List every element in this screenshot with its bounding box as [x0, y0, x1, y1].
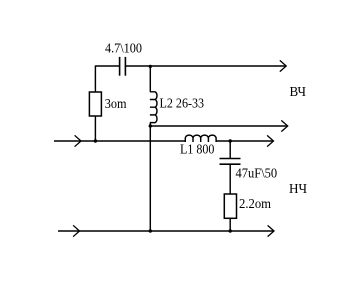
inductor L1 coil — [185, 135, 216, 142]
capacitor C1 plates — [120, 57, 126, 76]
arrowhead bottom input — [73, 225, 79, 236]
capacitor C2 plates — [220, 159, 241, 165]
arrowhead bottom output — [268, 225, 274, 236]
svg-text:L2 26-33: L2 26-33 — [160, 97, 205, 112]
node junction dot (R2 / bottom wire) — [229, 229, 232, 232]
arrowhead middle output — [267, 135, 273, 146]
wire top-left from node A to C1 — [95, 65, 119, 67]
svg-text:3om: 3om — [105, 97, 127, 112]
node junction dot (main vertical / bottom wire) — [149, 229, 152, 232]
svg-text:2.2om: 2.2om — [239, 197, 271, 212]
inductor L2 coil — [150, 92, 157, 123]
arrowhead ВЧ+ output — [280, 60, 286, 71]
resistor R2 body — [224, 194, 236, 218]
wire R1 bottom to middle wire — [94, 116, 96, 141]
wire middle output segment (L1 to НЧ tap) — [216, 140, 273, 142]
wire middle input segment — [54, 140, 185, 142]
arrowhead ВЧ- output — [281, 120, 287, 131]
svg-text:ВЧ: ВЧ — [290, 85, 307, 100]
svg-text:L1 800: L1 800 — [180, 143, 214, 158]
wire top segment of main vertical (node A to L2) — [149, 65, 151, 91]
wire left branch upper (top wire to R1) — [94, 65, 96, 92]
node junction dot (L2 bottom / ВЧ- wire) — [149, 124, 152, 127]
node junction dot (C2 / middle wire) — [229, 139, 232, 142]
wire bottom input/output — [58, 230, 273, 232]
node junction dot (R1 / middle wire) — [94, 139, 97, 142]
wire R2 bottom to bottom wire — [229, 218, 231, 231]
wire ВЧ- output (y=126) — [150, 125, 287, 127]
wire C2 top stub — [229, 141, 231, 159]
resistor R1 body — [89, 92, 101, 116]
wire C1 to ВЧ+ output — [126, 65, 286, 67]
arrowhead middle input — [75, 135, 81, 146]
node A junction dot (top wire / L2 branch) — [149, 65, 152, 68]
wire lower segment of main vertical (L2 to bottom wire) — [149, 123, 151, 231]
svg-text:47uF\50: 47uF\50 — [236, 167, 278, 182]
svg-text:4.7\100: 4.7\100 — [105, 42, 142, 57]
svg-text:НЧ: НЧ — [289, 182, 307, 197]
wire C2 to R2 — [229, 164, 231, 194]
